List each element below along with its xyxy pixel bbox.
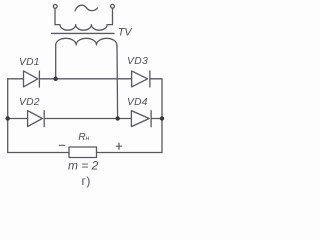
wire VD3 cathode to right rail bbox=[150, 78, 162, 80]
node C junction dot (left rail / VD2) bbox=[6, 116, 10, 120]
transformer TV primary winding bbox=[55, 25, 113, 31]
wire secondary right lead to node B bbox=[116, 45, 119, 119]
label VD3 bbox=[127, 56, 148, 67]
left rail wire bbox=[7, 79, 9, 153]
wire left terminal to primary bbox=[54, 8, 56, 24]
wire VD4 cathode to right rail bbox=[151, 118, 162, 120]
wire bottom left segment bbox=[8, 152, 69, 154]
label m = 2 bbox=[68, 159, 99, 173]
right rail wire bbox=[161, 79, 163, 153]
AC source terminal right bbox=[111, 4, 115, 8]
caption letter bbox=[82, 174, 91, 188]
svg-text:VD4: VD4 bbox=[127, 97, 148, 108]
svg-text:VD1: VD1 bbox=[19, 57, 40, 68]
node A junction dot bbox=[53, 77, 57, 81]
resistor Rn bbox=[69, 147, 97, 158]
plus polarity mark bbox=[116, 143, 121, 149]
transformer core bbox=[52, 32, 115, 34]
wire bottom right segment bbox=[97, 152, 163, 154]
AC sine symbol bbox=[75, 5, 98, 11]
svg-text:г): г) bbox=[82, 174, 91, 188]
wire VD1 cathode to VD3 anode bbox=[39, 78, 131, 80]
node D junction dot (right rail / VD4) bbox=[160, 116, 164, 120]
minus polarity mark bbox=[59, 144, 64, 146]
label TV bbox=[118, 27, 134, 39]
label Rn bbox=[78, 132, 89, 143]
label VD4 bbox=[127, 97, 148, 108]
svg-text:m = 2: m = 2 bbox=[68, 159, 99, 173]
label VD1 bbox=[19, 57, 40, 68]
diode VD2 bbox=[28, 111, 45, 127]
svg-text:TV: TV bbox=[118, 27, 134, 39]
wire secondary left lead to node A bbox=[55, 45, 57, 79]
svg-text:Rн: Rн bbox=[78, 132, 89, 143]
svg-text:VD2: VD2 bbox=[19, 97, 40, 108]
wire left rail to VD2 anode bbox=[8, 118, 28, 120]
diode VD3 bbox=[132, 71, 150, 87]
diode VD4 bbox=[131, 111, 151, 127]
label VD2 bbox=[19, 97, 40, 108]
node B junction dot bbox=[116, 116, 120, 120]
transformer TV secondary winding bbox=[56, 38, 117, 45]
diode VD1 bbox=[24, 71, 40, 87]
wire left rail top segment to VD1 anode bbox=[8, 78, 24, 80]
wire VD2 cathode to VD4 anode bbox=[44, 118, 131, 120]
AC source terminal left bbox=[53, 5, 57, 9]
wire right terminal to primary bbox=[112, 8, 114, 24]
svg-text:VD3: VD3 bbox=[127, 56, 148, 67]
